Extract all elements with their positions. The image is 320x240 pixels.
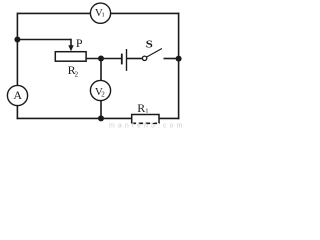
node junction above V2 [98, 56, 104, 62]
wire top-right segment [111, 12, 180, 14]
node junction on left wire [14, 37, 20, 43]
rheostat R2 [55, 52, 86, 62]
wire right vertical segment [178, 13, 180, 120]
svg-text:2: 2 [101, 91, 105, 99]
wire node to V2 [100, 59, 102, 81]
slider arrow P [68, 45, 73, 51]
svg-text:R: R [137, 101, 145, 115]
svg-text:A: A [13, 88, 22, 102]
wire V2 to bottom [100, 101, 102, 119]
battery long plate [126, 49, 128, 71]
node junction on bottom wire [98, 115, 104, 121]
battery short plate [121, 54, 123, 65]
wire switch to right node [164, 58, 179, 60]
svg-text:1: 1 [102, 12, 105, 19]
svg-text:S: S [146, 40, 153, 51]
svg-text:P: P [76, 36, 83, 50]
wire battery to switch [127, 58, 143, 60]
switch S pivot circle [142, 56, 146, 60]
wire bottom-right segment [159, 117, 179, 119]
wire slider branch horizontal [17, 39, 71, 41]
voltmeter V2 [90, 80, 110, 100]
svg-text:manfen5.com: manfen5.com [109, 123, 186, 130]
resistor R1 (dashed-bottom box) [132, 115, 160, 124]
wire rheostat to battery [86, 58, 121, 60]
node junction on right wire [176, 56, 182, 62]
ammeter A [7, 85, 27, 105]
wire slider branch vertical [70, 39, 72, 47]
wire top-left segment [17, 12, 90, 14]
wire left lower segment [16, 105, 18, 119]
switch S lever [147, 49, 162, 58]
svg-text:1: 1 [145, 108, 148, 115]
wire left upper segment [16, 13, 18, 86]
svg-text:2: 2 [75, 71, 79, 79]
wire bottom-left segment [17, 117, 132, 119]
voltmeter V1 [90, 3, 110, 23]
